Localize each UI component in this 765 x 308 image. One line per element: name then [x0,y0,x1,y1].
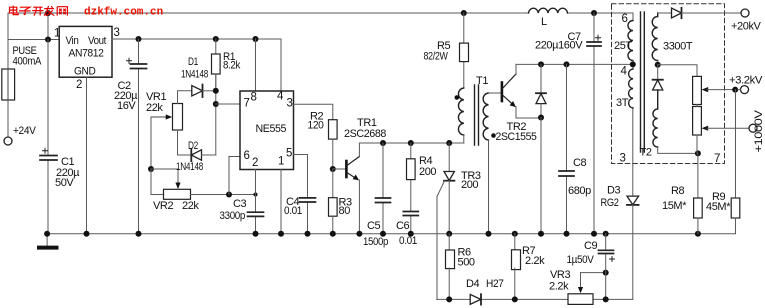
svg-text:GND: GND [74,66,96,78]
wire R5 branch [463,13,465,88]
wire T1 secondary bottom to ground [488,140,490,234]
resistor R5 82/2W [460,43,469,62]
trimmer divider upper [693,76,702,104]
diode HV internal [657,65,659,80]
svg-text:+3.2kV: +3.2kV [729,75,763,87]
svg-text:3: 3 [114,27,120,39]
wire VR1 wiper riser [150,117,152,169]
svg-text:5: 5 [286,148,292,160]
svg-text:3: 3 [620,153,626,165]
node pin6 riser junction [226,192,232,198]
node +3.2kV junction [732,87,738,93]
svg-text:H27: H27 [486,278,504,290]
node damper diode top [538,61,544,67]
diode D2 1N4148 [191,150,201,160]
svg-text:VR3: VR3 [550,269,570,281]
transistor Q1 TR1 2SC2688 [333,168,347,170]
terminal +3.2kV [741,86,749,94]
wire C5 branch [382,143,384,234]
resistor R1 8.2k [212,54,221,74]
node pin7 junction [213,101,219,107]
node TR3 junction [446,140,452,146]
wire wiper node to VR2 left end [151,169,164,195]
capacitor C1 [40,156,57,161]
svg-text:C3: C3 [233,198,247,210]
svg-text:RG2: RG2 [601,197,619,209]
svg-text:680p: 680p [568,185,591,197]
wire VR1 top to D1 row [178,91,192,104]
wire HV tap to divider [658,65,697,77]
capacitor C7 220u 160V [587,42,601,46]
flyback T2 dashed enclosure [612,4,725,164]
svg-text:45M*: 45M* [706,201,731,213]
svg-text:1: 1 [54,28,60,40]
node rail riser junction [45,10,51,16]
timer U2 NE555 [240,91,294,170]
svg-text:D4: D4 [466,278,480,290]
ground symbol [46,234,48,246]
capacitor C8 680p [559,171,574,176]
resistor R2 120 [329,120,338,139]
svg-text:D2: D2 [188,140,198,152]
fuse PUSE 400mA [2,69,15,100]
transformer T1 secondary winding [483,93,488,140]
transformer T1 primary winding [458,88,463,135]
node NE555 pin8 junction [253,36,259,42]
svg-text:VR2: VR2 [153,200,173,212]
wire NE555 pin 4 riser [280,39,282,91]
core T2 [641,12,645,152]
wire lower feedback rail [437,298,633,300]
svg-text:82/2W: 82/2W [424,51,449,63]
node R1 top junction [213,36,219,42]
wire +24V top rail [8,12,633,14]
node R6 bottom junction [446,296,452,302]
wire Vout 12V line [112,38,281,40]
capacitor C3 3300p [248,212,264,216]
wiper arrow +1000V tap [702,126,709,131]
wire base node to R3 [332,169,334,198]
wire NE555 pin 3 output [294,104,333,119]
wire NE555 pin 2 branch [255,170,257,234]
wire 25T to 3T [632,61,634,70]
svg-text:1µ50V: 1µ50V [567,254,595,266]
wire T2 pin6 entry [632,13,634,21]
svg-text:D3: D3 [607,185,621,197]
wire NE555 pin 8 riser [255,39,257,91]
wire TR2 collector line to T2 pin4 [516,63,633,65]
wire fuse branch [7,13,9,137]
thyristor TR3 200 [448,143,450,172]
wiper arrow VR3 [580,273,582,288]
svg-text:NE555: NE555 [256,123,287,135]
node VR1/VR2 wiper junction [148,166,154,172]
svg-text:2: 2 [76,79,82,91]
svg-text:8.2k: 8.2k [223,60,241,72]
core T1 [475,85,479,145]
svg-text:+24V: +24V [13,125,36,137]
wire R2 bottom to base node [332,139,334,169]
node HV tap junction [657,61,659,65]
node C5 junction [380,140,386,146]
node C2 junction [136,36,142,42]
node Vin junction [45,37,51,43]
polarity dot T1 secondary [491,133,496,138]
svg-text:D1: D1 [188,56,198,68]
resistor R8 15M [697,153,699,198]
svg-text:+20kV: +20kV [731,21,762,33]
diode D1 1N4148 [192,86,203,96]
wire ground rail [47,233,735,235]
svg-text:1: 1 [278,156,284,168]
node R5 top junction [461,10,467,16]
potentiometer VR2 22k [164,189,191,199]
wire divider bottom to pin7 node [696,135,698,153]
svg-text:L: L [541,16,547,28]
capacitor C6 0.01 [403,212,418,216]
svg-text:2SC2688: 2SC2688 [344,128,386,140]
wire T1 primary bottom [463,135,465,143]
svg-text:2SC1555: 2SC1555 [496,131,537,143]
node TR1 base junction [330,166,336,172]
svg-text:22k: 22k [146,102,163,114]
wire VR1 bottom to D2 row [178,130,192,155]
svg-text:6: 6 [244,150,250,162]
svg-text:25T: 25T [614,40,632,52]
svg-text:T1: T1 [476,75,488,87]
polarity dot T1 primary [455,95,460,100]
node D1 cathode junction [213,88,219,94]
wire C8 branch [566,64,568,233]
svg-text:1500p: 1500p [363,236,388,248]
svg-text:220µ160V: 220µ160V [535,40,583,52]
svg-text:R8: R8 [671,185,685,197]
diode HV output rectifier [658,12,672,14]
wiper arrow VR1 [151,116,167,118]
wiper arrow +3.2kV tap [702,87,709,92]
svg-text:dzkfw.com.cn: dzkfw.com.cn [84,7,163,19]
svg-text:T2: T2 [640,147,652,159]
svg-text:22k: 22k [182,200,199,212]
svg-text:0.01: 0.01 [399,235,417,247]
diode D3 RG2 [632,108,634,196]
svg-text:2.2k: 2.2k [549,281,569,293]
svg-text:6: 6 [622,13,628,25]
wire C7 branch [593,13,595,234]
potentiometer VR3 2.2k [568,294,593,305]
wire NE555 pin 1 branch [280,170,282,234]
wire T1 secondary top to TR2 base [489,92,502,94]
transformer T2 3T winding [629,69,633,108]
svg-text:120: 120 [308,120,324,132]
terminal +1000V [749,124,757,132]
wire VR3 wiper to C9 node [581,272,606,274]
svg-text:80: 80 [339,205,351,217]
site watermark Chinese characters [10,6,68,16]
wiper arrow VR2 [175,183,180,190]
transformer T2 25T winding [628,21,633,61]
svg-text:16V: 16V [117,100,136,112]
node C8 top junction [564,61,570,67]
svg-text:1N4148: 1N4148 [181,69,208,81]
svg-text:400mA: 400mA [13,56,42,68]
node TR2 emitter junction [538,115,544,121]
wire C9 branch [605,234,607,300]
wire riser rail to Vin node [47,13,49,40]
svg-text:4: 4 [277,91,284,103]
svg-text:500: 500 [458,257,475,269]
wire R1 branch [215,39,217,91]
wire VR2 right to pin2 line [191,194,256,196]
wire NE555 pin 6 branch [229,157,240,195]
capacitor C2 [131,64,147,69]
svg-text:3T: 3T [616,97,629,109]
wire C2 branch [138,39,140,234]
transistor Q2 TR2 2SC1555 [501,83,504,102]
node pin2 line junction [254,193,258,197]
node R4 junction [408,140,414,146]
node C9 bottom junction [603,270,609,276]
wire wiper node to VR2 wiper arm [151,169,178,184]
resistor R3 80 [329,198,338,217]
capacitor C4 0.01 [300,198,316,202]
svg-text:3300p: 3300p [220,210,246,222]
node pin7 junction [695,150,701,156]
wire NE555 pin 7 stub [216,103,240,105]
svg-text:4: 4 [621,66,628,78]
svg-text:C8: C8 [573,157,587,169]
resistor R6 500 [448,234,450,250]
svg-text:C9: C9 [584,240,598,252]
node ground rail junctions [44,231,50,237]
svg-text:7: 7 [714,153,720,165]
svg-text:2.2k: 2.2k [525,255,545,267]
svg-text:C5: C5 [367,220,381,232]
wire 3300T bottom to pin7 node [658,147,698,153]
wire to +20kV terminal [682,12,742,14]
inductor L [529,8,568,13]
svg-text:200: 200 [461,179,478,191]
wire C1 branch [47,40,49,234]
svg-text:7: 7 [244,98,250,110]
node C7 top junction [591,10,597,16]
resistor R9 45M [735,90,737,198]
node T2 pin4 junction [630,61,636,67]
wire R4 branch [410,143,412,234]
terminal +24V [4,137,12,145]
trimmer divider lower [693,107,702,136]
wire NE555 pin 5 branch [294,155,308,234]
wire D-network vertical [215,74,217,155]
wire R3 bottom to ground rail [332,216,334,234]
svg-text:Vin: Vin [66,35,79,47]
svg-text:C6: C6 [396,220,410,232]
wire TR1 collector line [359,142,463,144]
svg-text:2: 2 [252,157,258,169]
resistor R7 2.2k [514,234,516,250]
wire TR2 emitter to ground [540,118,542,234]
svg-text:8: 8 [251,92,257,104]
node VR3 lower rail junction [603,296,609,302]
diode damper across TR2 [540,64,542,93]
capacitor C5 1500p [376,198,391,203]
wire TR3 gate [437,181,445,300]
regulator U1 AN7812 [59,26,112,77]
svg-text:AN7812: AN7812 [69,48,104,60]
wire Vin feed horizontal [8,39,59,41]
svg-text:15M*: 15M* [662,200,687,212]
resistor R4 200 [407,159,416,180]
svg-text:+1000V: +1000V [753,109,765,152]
svg-text:3: 3 [287,98,293,110]
terminal +20kV [741,9,749,17]
transformer T2 3300T winding lower [653,90,658,147]
capacitor C9 1u 50V [599,250,614,253]
svg-text:200: 200 [419,166,436,178]
svg-text:0.01: 0.01 [284,205,302,217]
potentiometer VR1 22k [173,104,183,131]
svg-text:3300T: 3300T [663,41,693,53]
transformer T2 3300T winding upper [652,13,658,61]
wire GND pin 2 branch [86,77,88,234]
svg-text:Vout: Vout [88,35,106,47]
svg-text:50V: 50V [55,177,74,189]
svg-text:1N4148: 1N4148 [176,161,203,173]
node R7 bottom junction [512,296,518,302]
diode D4 H27 [470,294,481,304]
